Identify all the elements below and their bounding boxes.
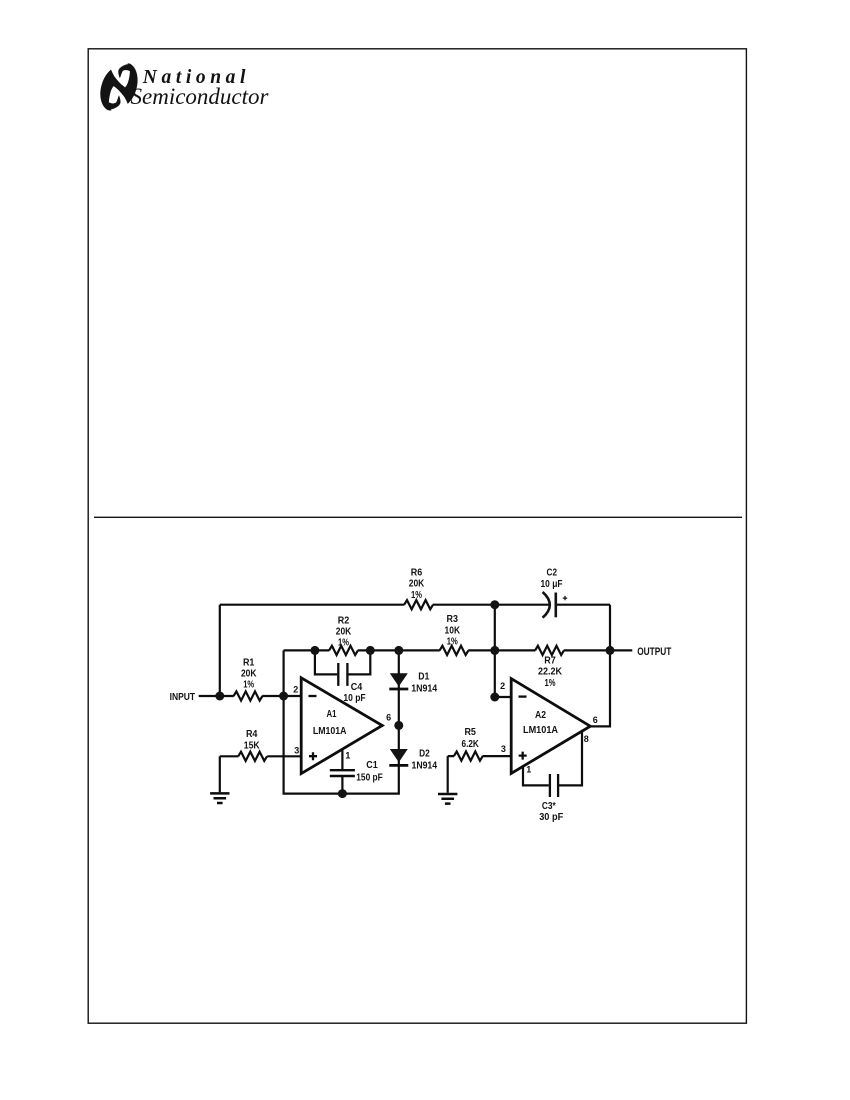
svg-text:R2: R2 (338, 615, 350, 626)
diode D2 1N914 (389, 749, 408, 765)
node output (606, 646, 615, 655)
svg-text:R3: R3 (447, 614, 459, 625)
wire C1 branch pin1 (341, 749, 343, 794)
svg-text:2: 2 (500, 681, 505, 691)
wire R2 to R3 (358, 649, 440, 651)
svg-text:8: 8 (584, 734, 589, 744)
wire bottom loop A1 (284, 650, 399, 793)
capacitor C3 30pF plates (550, 774, 558, 797)
svg-text:3: 3 (294, 746, 299, 756)
svg-text:22.2K: 22.2K (538, 667, 563, 678)
svg-text:30 pF: 30 pF (539, 812, 563, 823)
svg-text:15K: 15K (244, 740, 261, 751)
svg-text:6: 6 (593, 715, 598, 725)
svg-text:2: 2 (293, 684, 298, 694)
wire C3 branch pins 1 and 8 (523, 731, 582, 785)
svg-text:1%: 1% (545, 678, 556, 689)
svg-text:1: 1 (345, 751, 350, 761)
svg-text:C3*: C3* (542, 801, 556, 812)
svg-text:C4: C4 (351, 682, 363, 693)
svg-text:6: 6 (386, 713, 391, 723)
node A1 pin6 (394, 721, 403, 730)
svg-text:R5: R5 (464, 727, 476, 738)
op-amp A1 minus input (309, 695, 317, 697)
node A1 pin2 (279, 692, 288, 701)
svg-text:A2: A2 (535, 710, 546, 721)
wire right vertical down to A2 pin6 (590, 605, 610, 727)
capacitor C1 150pF plates (330, 770, 355, 776)
node mid line junction (490, 646, 499, 655)
svg-text:1%: 1% (243, 680, 254, 691)
separator rule (94, 516, 742, 518)
page border frame (88, 49, 746, 1023)
wire R5 to A2 pin3 (448, 756, 512, 793)
svg-text:10 μF: 10 μF (541, 579, 563, 590)
svg-text:LM101A: LM101A (313, 725, 347, 737)
node R2 right (366, 646, 375, 655)
wire feedback vertical to A1 pin2 (283, 650, 285, 696)
wire feedback line seg1 (284, 649, 330, 651)
wire vertical input node up to top line (219, 605, 221, 696)
resistor R3 10K 1% (440, 646, 469, 655)
op-amp A2 LM101A triangle (511, 679, 590, 774)
svg-text:10 pF: 10 pF (343, 693, 365, 704)
wire R4 to A1 pin3 (220, 756, 301, 792)
ground below R4 (210, 793, 229, 803)
op-amp A1 LM101A triangle (301, 678, 382, 774)
wire R3 to R7 (468, 649, 535, 651)
svg-text:R7: R7 (544, 656, 556, 667)
resistor R4 15K (238, 752, 267, 761)
svg-text:20K: 20K (409, 579, 425, 590)
svg-text:6.2K: 6.2K (462, 739, 480, 750)
svg-text:1%: 1% (447, 637, 458, 648)
node A2 pin2 (490, 693, 499, 702)
wire R1 to A1 pin2 (262, 695, 301, 697)
svg-text:150 pF: 150 pF (356, 773, 382, 784)
svg-text:10K: 10K (445, 625, 461, 636)
svg-text:A1: A1 (327, 709, 337, 720)
op-amp A2 plus input (519, 752, 527, 760)
svg-text:20K: 20K (336, 627, 352, 638)
resistor R6 20K 1% (404, 600, 433, 609)
svg-text:D2: D2 (419, 748, 430, 759)
svg-text:20K: 20K (241, 669, 257, 680)
resistor R5 6.2K (454, 752, 483, 761)
resistor R7 22.2K 1% (535, 646, 564, 655)
svg-text:R1: R1 (243, 657, 255, 668)
resistor R2 20K 1% (329, 646, 358, 655)
svg-text:INPUT: INPUT (170, 692, 196, 703)
svg-text:3: 3 (501, 744, 506, 754)
node top line junction (490, 600, 499, 609)
wire C4 branch (315, 650, 370, 674)
capacitor C4 10pF plates (338, 663, 347, 686)
svg-text:1N914: 1N914 (412, 760, 438, 771)
svg-text:C1: C1 (366, 760, 378, 771)
svg-text:LM101A: LM101A (523, 724, 558, 736)
svg-text:1%: 1% (411, 590, 422, 601)
wire A2 pin2 vertical (495, 605, 511, 697)
svg-text:C2: C2 (547, 568, 558, 579)
wire R7 to output node (564, 649, 633, 651)
svg-text:Semiconductor: Semiconductor (131, 84, 270, 109)
op-amp A1 plus input (309, 752, 317, 760)
op-amp A2 minus input (519, 695, 527, 697)
National Semiconductor logo mark (100, 63, 137, 111)
wire input to R1 (199, 695, 234, 697)
svg-text:1%: 1% (338, 638, 349, 649)
node input (215, 692, 224, 701)
resistor R1 20K 1% (234, 691, 263, 700)
node R2 left (310, 646, 319, 655)
svg-text:1: 1 (526, 764, 531, 774)
svg-text:R6: R6 (411, 567, 423, 578)
svg-text:D1: D1 (418, 672, 429, 683)
diode D1 1N914 (389, 673, 408, 689)
capacitor C2 10uF polarized (543, 592, 568, 618)
svg-text:OUTPUT: OUTPUT (637, 646, 671, 658)
wire top line R6 to C2 (433, 604, 549, 606)
node D1 top (394, 646, 403, 655)
svg-text:R4: R4 (246, 729, 258, 740)
svg-text:1N914: 1N914 (411, 683, 437, 694)
wire top line left segment (220, 604, 405, 606)
ground below R5 (438, 794, 457, 804)
node C1 bottom (338, 789, 347, 798)
wire C2 to right corner (557, 604, 610, 606)
